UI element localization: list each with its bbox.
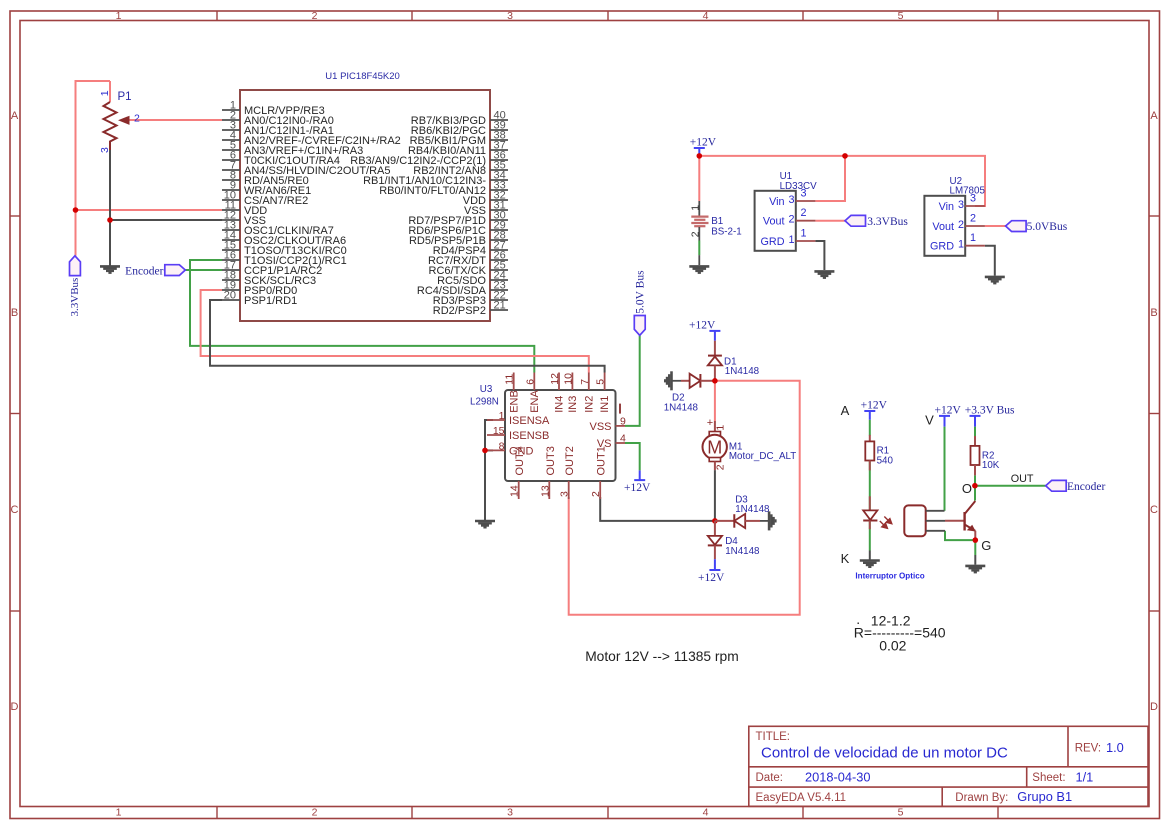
diode D1 1N4148 — [714, 341, 716, 356]
svg-text:4: 4 — [703, 807, 709, 819]
svg-text:6: 6 — [524, 379, 536, 385]
svg-text:5: 5 — [595, 379, 607, 385]
svg-text:13: 13 — [539, 485, 551, 497]
svg-text:15: 15 — [493, 425, 505, 437]
svg-text:ISENSA: ISENSA — [509, 415, 550, 427]
LED emitter diode — [869, 496, 871, 510]
svg-text:IN2: IN2 — [583, 396, 595, 413]
svg-text:C: C — [1150, 504, 1158, 516]
svg-text:4: 4 — [620, 433, 626, 445]
power +3.3V Bus — [970, 415, 981, 417]
svg-text:3: 3 — [958, 199, 964, 211]
svg-text:2: 2 — [801, 207, 807, 219]
svg-text:3: 3 — [559, 491, 571, 497]
ground U1 — [814, 270, 834, 273]
wire +12V to battery B1 — [698, 156, 700, 201]
svg-text:1: 1 — [99, 90, 111, 96]
svg-text:3.3VBus: 3.3VBus — [867, 216, 908, 228]
housing leads — [926, 510, 945, 512]
svg-text:1N4148: 1N4148 — [725, 366, 760, 377]
svg-text:3: 3 — [970, 193, 976, 205]
svg-text:REV:: REV: — [1075, 743, 1101, 755]
svg-text:10K: 10K — [982, 460, 1000, 471]
wire pin16 to U3 ENA — [190, 260, 534, 373]
wire pot bottom to ground — [109, 150, 111, 266]
wire +12V rail to regulators — [699, 156, 985, 206]
junction VDD node — [73, 207, 79, 213]
wire R1 to LED — [869, 461, 871, 511]
junction node G — [973, 537, 979, 543]
svg-text:3: 3 — [507, 807, 513, 819]
svg-text:O: O — [962, 481, 972, 496]
port Encoder right — [1046, 480, 1067, 491]
wire node G to ground — [974, 540, 976, 555]
power +12V top — [694, 147, 705, 149]
wire U1 Vout to 3.3VBus flag — [815, 220, 845, 222]
port 3.3VBus at U1 — [845, 215, 866, 226]
wire pin19 to U3 IN2 — [201, 290, 589, 373]
svg-text:1: 1 — [690, 205, 702, 211]
power +12V at V — [939, 415, 950, 417]
ground transistor — [965, 565, 985, 568]
svg-text:Vout: Vout — [932, 221, 954, 233]
diode D4 1N4148 — [714, 521, 716, 536]
svg-text:B: B — [11, 307, 18, 319]
svg-text:2: 2 — [970, 213, 976, 225]
svg-text:3: 3 — [789, 194, 795, 206]
wire VDD pin11 — [76, 209, 223, 211]
svg-text:9: 9 — [620, 415, 626, 427]
motor M1 Motor_DC_ALT — [714, 421, 716, 432]
svg-text:1.0: 1.0 — [1106, 740, 1124, 755]
svg-text:2: 2 — [312, 10, 318, 22]
title block — [749, 726, 1148, 806]
ground pot — [100, 265, 120, 268]
svg-text:A: A — [11, 110, 19, 122]
svg-text:Date:: Date: — [756, 772, 784, 784]
svg-text:K: K — [841, 551, 850, 566]
svg-text:OUT4: OUT4 — [514, 446, 526, 475]
svg-text:A: A — [841, 403, 850, 418]
svg-text:Grupo B1: Grupo B1 — [1017, 789, 1072, 804]
svg-text:OUT3: OUT3 — [545, 446, 557, 475]
svg-text:3: 3 — [801, 188, 807, 200]
svg-text:1/1: 1/1 — [1076, 770, 1094, 785]
svg-text:7: 7 — [579, 379, 591, 385]
svg-text:U1 PIC18F45K20: U1 PIC18F45K20 — [325, 71, 399, 82]
svg-text:U3: U3 — [480, 384, 493, 395]
svg-text:21: 21 — [494, 300, 506, 312]
svg-text:Vout: Vout — [763, 216, 785, 228]
svg-text:OUT: OUT — [1011, 473, 1034, 485]
junction VSS node — [107, 217, 113, 223]
wire 3.3VBus riser to pot top — [76, 81, 111, 256]
resistor R2 10K — [974, 436, 976, 446]
wire U2 Vout to 5.0VBus flag — [985, 225, 1006, 227]
wire emitter loop to node G — [945, 531, 975, 540]
wire U2 GRD to ground — [985, 246, 995, 276]
svg-text:Encoder: Encoder — [125, 266, 163, 278]
svg-text:2018-04-30: 2018-04-30 — [805, 770, 870, 785]
svg-text:TITLE:: TITLE: — [756, 731, 791, 743]
wire +3.3V Bus to R2 — [974, 427, 976, 446]
wire node O to Encoder flag — [975, 485, 1046, 487]
svg-text:L298N: L298N — [470, 397, 499, 408]
ground left of D2 — [670, 371, 673, 390]
wire LED to ground — [869, 521, 871, 551]
svg-text:5: 5 — [898, 807, 904, 819]
svg-text:1: 1 — [116, 807, 122, 819]
svg-text:B: B — [1150, 307, 1157, 319]
svg-text:14: 14 — [509, 485, 521, 497]
port 5.0V Bus flag — [634, 316, 645, 336]
junction D1 node — [712, 378, 718, 384]
svg-text:C: C — [11, 504, 19, 516]
svg-text:8: 8 — [499, 441, 505, 453]
wire U3 VS to +12V — [625, 443, 640, 470]
svg-text:V: V — [925, 413, 934, 428]
svg-text:+12V: +12V — [690, 137, 717, 149]
svg-text:IN4: IN4 — [554, 396, 566, 413]
svg-text:GRD: GRD — [761, 236, 785, 248]
battery B1 BS-2-1 — [698, 201, 700, 216]
svg-text:12: 12 — [549, 373, 561, 385]
svg-text:Vin: Vin — [939, 201, 954, 213]
svg-text:+12V: +12V — [935, 404, 962, 416]
svg-text:Motor 12V --> 11385 rpm: Motor 12V --> 11385 rpm — [585, 649, 739, 664]
ground U2 — [985, 276, 1005, 279]
svg-text:1: 1 — [499, 410, 505, 422]
ground battery — [689, 265, 709, 268]
diode D3 1N4148 — [715, 520, 734, 522]
svg-text:B1: B1 — [711, 216, 723, 227]
svg-text:ENA: ENA — [529, 390, 541, 413]
ground U3 — [475, 520, 495, 523]
svg-text:3: 3 — [507, 10, 513, 22]
wire battery to ground — [698, 241, 700, 256]
resistor R1 540 — [869, 435, 871, 442]
wire VSS pin12 — [110, 219, 222, 221]
svg-text:1: 1 — [970, 232, 976, 244]
wire U3 left pins to ground — [485, 420, 493, 520]
svg-text:0.02: 0.02 — [879, 637, 906, 653]
svg-text:ENB: ENB — [508, 390, 520, 413]
svg-text:+12V: +12V — [861, 400, 888, 412]
svg-text:PSP1/RD1: PSP1/RD1 — [244, 295, 297, 307]
wire +12V(V) down to housing lead — [944, 427, 946, 511]
svg-text:3: 3 — [99, 147, 111, 153]
optocoupler housing — [904, 505, 925, 536]
wire pin20 to U3 IN1 — [210, 300, 605, 373]
svg-text:1N4148: 1N4148 — [725, 546, 760, 557]
wire pin17 to Encoder flag — [185, 269, 222, 271]
svg-text:Sheet:: Sheet: — [1032, 772, 1065, 784]
svg-text:2: 2 — [590, 491, 602, 497]
svg-text:VSS: VSS — [589, 421, 611, 433]
svg-text:ISENSB: ISENSB — [509, 430, 549, 442]
svg-text:2: 2 — [715, 464, 727, 470]
svg-text:M: M — [707, 438, 722, 458]
svg-text:5.0V Bus: 5.0V Bus — [634, 270, 646, 314]
wire U1 GRD to ground — [815, 241, 824, 270]
ground right of D3 — [768, 511, 771, 530]
svg-text:5.0VBus: 5.0VBus — [1027, 221, 1068, 233]
svg-text:OUT1: OUT1 — [596, 446, 608, 475]
port 3.3VBus left — [70, 256, 81, 276]
svg-text:+: + — [707, 417, 713, 429]
svg-text:3.3VBus: 3.3VBus — [69, 278, 81, 317]
power +12V at A — [864, 410, 875, 412]
svg-text:1: 1 — [715, 425, 727, 431]
diode D2 1N4148 — [681, 380, 690, 382]
svg-text:10: 10 — [562, 373, 574, 385]
power +12V below D4 — [709, 569, 720, 571]
svg-text:Motor_DC_ALT: Motor_DC_ALT — [729, 451, 796, 462]
svg-text:+12V: +12V — [689, 319, 716, 331]
svg-text:1: 1 — [801, 228, 807, 240]
svg-text:Encoder: Encoder — [1067, 481, 1105, 493]
svg-text:5: 5 — [898, 10, 904, 22]
svg-text:OUT2: OUT2 — [564, 446, 576, 475]
svg-text:11: 11 — [504, 374, 516, 385]
potentiometer P1 — [109, 81, 111, 102]
wire pot wiper to PIC pin2 — [129, 119, 222, 121]
port 5.0VBus at U2 — [1006, 221, 1027, 232]
power +12V at VS — [634, 479, 645, 481]
wire U3 VSS to 5.0V Bus flag — [625, 335, 640, 426]
svg-text:+3.3V Bus: +3.3V Bus — [965, 404, 1015, 416]
wire U3 OUT2 loop to D1 node — [569, 381, 800, 615]
phototransistor Q1 — [945, 520, 965, 522]
junction motor bottom node — [712, 518, 718, 524]
svg-text:20: 20 — [224, 290, 236, 302]
svg-text:+12V: +12V — [698, 572, 725, 584]
wire +12V(A) to R1 — [869, 420, 871, 436]
svg-text:1: 1 — [789, 234, 795, 246]
svg-text:1: 1 — [116, 10, 122, 22]
svg-text:GRD: GRD — [930, 241, 954, 253]
svg-text:Control de velocidad de un mot: Control de velocidad de un motor DC — [761, 745, 1008, 762]
wire U1 Vin riser — [815, 156, 845, 201]
svg-text:2: 2 — [312, 807, 318, 819]
junction node O — [972, 483, 978, 489]
svg-text:1N4148: 1N4148 — [735, 504, 770, 515]
svg-text:1: 1 — [958, 239, 964, 251]
svg-text:1N4148: 1N4148 — [664, 402, 699, 413]
svg-text:IN3: IN3 — [567, 396, 579, 413]
svg-text:540: 540 — [877, 455, 894, 466]
svg-text:P1: P1 — [118, 91, 132, 103]
wire U3 OUT1 to motor bottom node — [600, 497, 715, 521]
wire motor bottom — [714, 470, 716, 521]
svg-text:2: 2 — [134, 113, 140, 125]
svg-text:IN1: IN1 — [599, 396, 611, 413]
svg-text:RD2/PSP2: RD2/PSP2 — [433, 305, 486, 317]
svg-text:BS-2-1: BS-2-1 — [711, 227, 742, 238]
svg-text:EasyEDA V5.4.11: EasyEDA V5.4.11 — [756, 792, 847, 804]
svg-text:Interruptor Optico: Interruptor Optico — [855, 572, 924, 581]
power +12V above D1 — [709, 330, 720, 332]
ground LED — [860, 559, 880, 562]
svg-text:Vin: Vin — [769, 196, 784, 208]
junction +12V node — [697, 153, 703, 159]
svg-text:G: G — [981, 538, 991, 553]
wire D1 node to motor top — [714, 381, 716, 421]
junction U3 gnd node — [482, 448, 488, 454]
wire R2 to node O and collector — [974, 475, 976, 500]
svg-text:2: 2 — [789, 214, 795, 226]
svg-text:2: 2 — [690, 231, 702, 237]
svg-text:+12V: +12V — [624, 482, 651, 494]
svg-text:D: D — [1150, 701, 1158, 713]
svg-text:Drawn By:: Drawn By: — [955, 792, 1008, 804]
svg-text:A: A — [1150, 110, 1158, 122]
port Encoder left — [165, 265, 186, 276]
svg-text:D: D — [11, 701, 19, 713]
junction U1 Vin node — [842, 153, 848, 159]
svg-text:4: 4 — [703, 10, 709, 22]
svg-text:2: 2 — [958, 219, 964, 231]
